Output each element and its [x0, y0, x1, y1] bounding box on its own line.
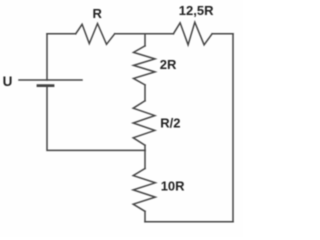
wire: from node B junction down to 10R	[144, 150, 146, 168]
voltage source U: negative plate (short thick)	[38, 84, 53, 87]
svg-text:10R: 10R	[161, 178, 185, 193]
resistor R/2 (vertical zigzag)	[133, 101, 155, 145]
voltage source U: positive plate (long)	[19, 79, 82, 81]
svg-text:U: U	[3, 74, 13, 89]
wire bottom-left return: from battery minus down and right to node B	[47, 86, 145, 151]
node B: junction segment where return wire meets middle branch	[144, 145, 146, 150]
wire: bottom lead of 10R up from bottom wire	[144, 211, 146, 222]
wire top middle: from R through node A junction to 12,5R	[115, 33, 174, 35]
wire top-left: left vertical rail upper segment	[46, 34, 48, 80]
resistor 2R (vertical zigzag)	[134, 46, 156, 85]
wire top: from top-left corner to resistor R	[47, 33, 76, 35]
resistor 12,5R (top right horizontal zigzag)	[173, 22, 212, 45]
wire top-right: from 12,5R to top-right corner	[212, 33, 233, 35]
resistor R (top horizontal zigzag)	[76, 24, 115, 45]
resistor 10R (vertical zigzag)	[133, 169, 155, 212]
wire: between R/2 and 2R	[144, 85, 146, 101]
svg-text:2R: 2R	[160, 57, 177, 72]
svg-text:12,5R: 12,5R	[179, 3, 214, 18]
node A: wire from top junction down to 2R	[144, 34, 146, 46]
wire bottom: bottom-right corner to bottom of middle branch	[145, 221, 233, 223]
svg-text:R/2: R/2	[160, 115, 180, 130]
svg-text:R: R	[93, 6, 103, 21]
wire right vertical rail	[232, 34, 234, 222]
